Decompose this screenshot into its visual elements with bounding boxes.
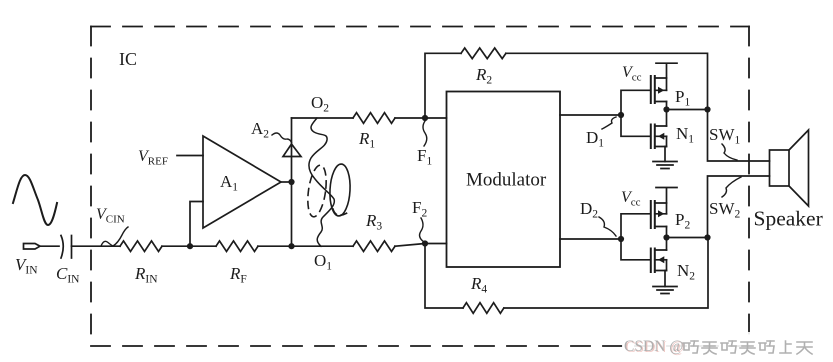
squiggle D2 pointer — [599, 217, 616, 236]
svg-text:R3: R3 — [365, 211, 382, 233]
resistor R4 — [463, 303, 504, 314]
svg-text:N2: N2 — [677, 261, 695, 283]
capacitor C_IN — [61, 236, 72, 259]
node midpoint 1 — [663, 106, 669, 112]
svg-text:D1: D1 — [586, 128, 604, 150]
wire R_F to O1 column — [258, 245, 292, 247]
svg-text:Vcc: Vcc — [622, 64, 642, 84]
squiggle SW2 pointer — [722, 177, 741, 197]
op-amp A1 — [203, 136, 281, 228]
dashed ellipse left — [305, 164, 329, 218]
wire C_IN to R_IN — [72, 245, 121, 247]
svg-text:VIN: VIN — [15, 255, 38, 277]
svg-text:A1: A1 — [220, 172, 238, 194]
svg-text:F1: F1 — [417, 146, 432, 168]
vertical O2-O1 column wire — [291, 118, 293, 246]
wire R1 to modulator — [395, 117, 447, 119]
wire R_IN to R_F — [162, 245, 216, 247]
squiggle A2 pointer — [272, 133, 292, 143]
wire P2 drain to midpoint — [666, 227, 668, 251]
watermark CSDN — [624, 338, 684, 355]
speaker — [770, 130, 809, 206]
ground N2 — [653, 287, 677, 294]
node SW1 junction — [704, 106, 710, 112]
node V_CIN squiggle — [101, 227, 128, 246]
wire A1 output — [281, 181, 292, 183]
resistor R2 — [461, 48, 506, 59]
transistor P2 — [651, 201, 667, 228]
squiggle F2 pointer — [420, 218, 424, 242]
svg-text:R1: R1 — [358, 129, 375, 151]
transistor N2 — [651, 249, 667, 273]
transistor N1 — [651, 125, 667, 149]
wire O1 to R3 — [292, 245, 354, 247]
Modulator box — [447, 92, 561, 268]
wire P1 drain to midpoint — [666, 102, 668, 127]
wire midpoint 2 — [667, 237, 708, 239]
wire SW1 — [708, 110, 770, 162]
watermark halo — [622, 332, 833, 359]
ground N1 — [653, 162, 677, 169]
wire O2 line — [292, 117, 354, 119]
squiggle SW1 pointer — [722, 144, 737, 160]
svg-text:P1: P1 — [675, 87, 690, 109]
watermark CSDN shadow — [625, 339, 685, 356]
hand-drawn squiggle O2 to O1 — [309, 118, 334, 246]
dashed arc bottom right — [333, 209, 347, 215]
wire V_REF input — [177, 155, 203, 157]
amplifier A2 triangle — [283, 144, 301, 157]
squiggle F1 pointer — [423, 121, 427, 146]
Vcc rail of P1 — [656, 63, 677, 90]
svg-text:RIN: RIN — [134, 264, 158, 286]
feedback R4 loop wires — [425, 238, 708, 309]
feedback R2 loop wires — [425, 53, 708, 118]
svg-text:CSDN @: CSDN @ — [624, 338, 684, 355]
svg-text:CIN: CIN — [56, 264, 80, 286]
wire N1 source to ground — [664, 147, 666, 162]
svg-text:Speaker: Speaker — [754, 207, 823, 231]
resistor R_IN — [120, 241, 162, 252]
node F2 — [422, 240, 428, 246]
wire SW2 — [708, 176, 770, 238]
svg-text:R2: R2 — [475, 65, 492, 87]
wire midpoint 1 — [667, 109, 708, 111]
input plug connector — [24, 244, 41, 250]
svg-text:R4: R4 — [470, 274, 487, 296]
gate branch bus 2 — [621, 214, 650, 260]
wire R3 to modulator — [395, 244, 447, 247]
resistor R3 — [353, 241, 395, 252]
wire D1 modulator to gates — [560, 114, 621, 116]
svg-text:SW1: SW1 — [709, 125, 741, 147]
wire plug to C_IN — [40, 245, 59, 247]
node at O1 column — [288, 243, 294, 249]
svg-text:VREF: VREF — [138, 148, 168, 168]
svg-text:O1: O1 — [314, 251, 332, 273]
svg-text:A2: A2 — [251, 119, 269, 141]
resistor R_F — [216, 241, 258, 252]
node midpoint 2 — [663, 234, 669, 240]
svg-text:N1: N1 — [676, 124, 694, 146]
solid ellipse right — [329, 164, 352, 217]
wire D2 modulator to gates — [560, 238, 621, 240]
svg-text:SW2: SW2 — [709, 199, 741, 221]
Vcc rail of P2 — [656, 188, 677, 214]
svg-text:D2: D2 — [580, 199, 598, 221]
svg-text:IC: IC — [119, 49, 137, 69]
input sine wave — [13, 175, 57, 225]
node F1 — [422, 115, 428, 121]
gate branch bus 1 — [621, 90, 650, 136]
resistor R1 — [353, 113, 395, 124]
watermark CJK glyph blocks — [683, 341, 812, 354]
svg-text:VCIN: VCIN — [96, 206, 125, 226]
node SW2 junction — [704, 234, 710, 240]
IC boundary dashed box — [91, 27, 749, 347]
squiggle D1 pointer — [602, 117, 616, 129]
node A1 output — [288, 179, 294, 185]
wire N2 source to ground — [664, 271, 666, 287]
node D1 gate — [618, 112, 624, 118]
svg-text:Vcc: Vcc — [621, 189, 641, 209]
transistor P1 — [651, 76, 667, 103]
svg-text:Modulator: Modulator — [466, 170, 547, 191]
node junction at R_IN / A1 input — [187, 243, 193, 249]
wire to A1 inverting input — [190, 202, 203, 247]
svg-text:O2: O2 — [311, 93, 329, 115]
svg-text:RF: RF — [229, 264, 247, 286]
svg-text:P2: P2 — [675, 210, 690, 232]
node D2 gate — [618, 236, 624, 242]
svg-text:F2: F2 — [412, 198, 427, 220]
